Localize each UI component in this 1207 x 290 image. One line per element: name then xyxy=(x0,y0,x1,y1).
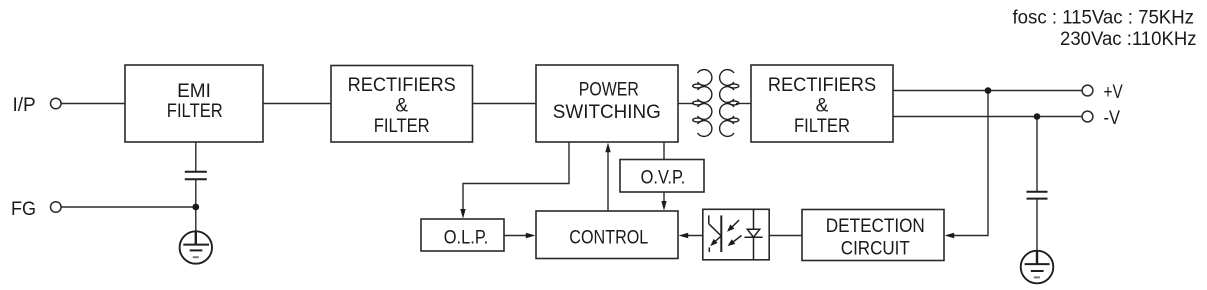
box optocoupler U1 xyxy=(703,209,769,259)
optocoupler phototransistor Q1 xyxy=(709,215,722,252)
wire optocoupler to CONTROL xyxy=(685,235,704,237)
optocoupler light arrows xyxy=(732,220,742,242)
label RECTIFIERS & FILTER 1 xyxy=(348,75,456,137)
label DETECTION CIRCUIT xyxy=(826,216,925,260)
ground right xyxy=(1021,251,1054,284)
wire transformer secondary to RECTIFIERS2 xyxy=(736,103,751,105)
label POWER SWITCHING xyxy=(553,80,661,123)
svg-text:230Vac :110KHz: 230Vac :110KHz xyxy=(1060,29,1197,50)
svg-text:POWER: POWER xyxy=(579,80,639,101)
ground left xyxy=(180,231,212,263)
box DETECTION CIRCUIT xyxy=(802,210,944,261)
arrow into CONTROL top (down) xyxy=(661,201,666,211)
svg-text:FILTER: FILTER xyxy=(794,116,850,137)
svg-text:SWITCHING: SWITCHING xyxy=(553,102,661,123)
box RECTIFIERS & FILTER 1 xyxy=(331,66,473,143)
wire I/P to EMI xyxy=(61,103,125,105)
svg-text:EMI: EMI xyxy=(177,81,211,102)
capacitor C1 (FG line) xyxy=(185,172,207,180)
svg-text:O.L.P.: O.L.P. xyxy=(444,228,489,249)
wire +V junction down to detection xyxy=(950,91,988,236)
label RECTIFIERS & FILTER 2 xyxy=(768,75,876,137)
wire capacitor to ground right xyxy=(1036,199,1038,251)
wire POWER SWITCHING down to O.V.P. xyxy=(663,142,665,160)
svg-text:CIRCUIT: CIRCUIT xyxy=(841,239,910,260)
svg-text:&: & xyxy=(395,96,408,117)
svg-text:FG: FG xyxy=(11,199,36,220)
wire FG to junction xyxy=(61,206,196,208)
label EMI FILTER xyxy=(167,81,223,122)
box O.V.P. xyxy=(620,160,704,193)
capacitor C2 (-V line) xyxy=(1027,192,1048,199)
wire O.V.P. down to CONTROL xyxy=(663,192,665,205)
svg-text:&: & xyxy=(816,96,829,117)
wire POWER SWITCHING to transformer primary xyxy=(678,103,694,105)
box POWER SWITCHING xyxy=(536,65,678,142)
wire -V output xyxy=(893,116,1082,118)
svg-text:I/P: I/P xyxy=(13,95,36,116)
arrow into CONTROL left (right) xyxy=(526,233,536,238)
node junction +V xyxy=(985,87,992,94)
wire -V junction down to capacitor xyxy=(1036,117,1038,192)
arrow into DETECTION CIRCUIT (left) xyxy=(945,233,955,238)
box CONTROL xyxy=(536,211,678,259)
arrow into POWER SWITCHING (up) xyxy=(605,143,610,153)
svg-text:RECTIFIERS: RECTIFIERS xyxy=(348,75,456,96)
svg-text:FILTER: FILTER xyxy=(374,116,430,137)
wire +V output xyxy=(893,90,1082,92)
svg-text:O.V.P.: O.V.P. xyxy=(641,168,686,189)
terminal +V xyxy=(1082,85,1093,96)
svg-text:RECTIFIERS: RECTIFIERS xyxy=(768,75,876,96)
svg-text:FILTER: FILTER xyxy=(167,101,223,122)
node junction FG xyxy=(192,204,199,211)
arrow into CONTROL right (left) xyxy=(679,233,689,238)
node junction -V xyxy=(1034,113,1041,120)
svg-text:CONTROL: CONTROL xyxy=(569,228,648,249)
wire optocoupler to DETECTION CIRCUIT xyxy=(770,235,803,237)
optocoupler LED D1 xyxy=(745,209,763,260)
svg-text:DETECTION: DETECTION xyxy=(826,216,925,237)
wire POWER SWITCHING to O.L.P. xyxy=(463,142,569,212)
wire CONTROL up to POWER SWITCHING xyxy=(607,149,609,211)
wire EMI bottom to capacitor left xyxy=(195,142,197,171)
wire O.L.P. to CONTROL xyxy=(504,235,530,237)
terminal -V xyxy=(1082,111,1093,122)
wire RECTIFIERS1 to POWER SWITCHING xyxy=(473,103,537,105)
svg-text:fosc : 115Vac : 75KHz: fosc : 115Vac : 75KHz xyxy=(1013,7,1195,29)
box EMI FILTER xyxy=(125,65,263,142)
wire capacitor left to ground left xyxy=(195,179,197,231)
svg-text:+V: +V xyxy=(1104,82,1123,103)
terminal FG xyxy=(51,202,62,213)
box RECTIFIERS & FILTER 2 xyxy=(751,65,893,142)
box O.L.P. xyxy=(421,219,504,251)
arrow into O.L.P. (down) xyxy=(460,209,465,219)
transformer T1 primary winding xyxy=(693,70,712,137)
transformer T1 secondary winding xyxy=(720,70,739,137)
wire EMI to RECTIFIERS1 xyxy=(263,103,331,105)
terminal I/P xyxy=(51,98,62,109)
svg-text:-V: -V xyxy=(1104,108,1121,129)
